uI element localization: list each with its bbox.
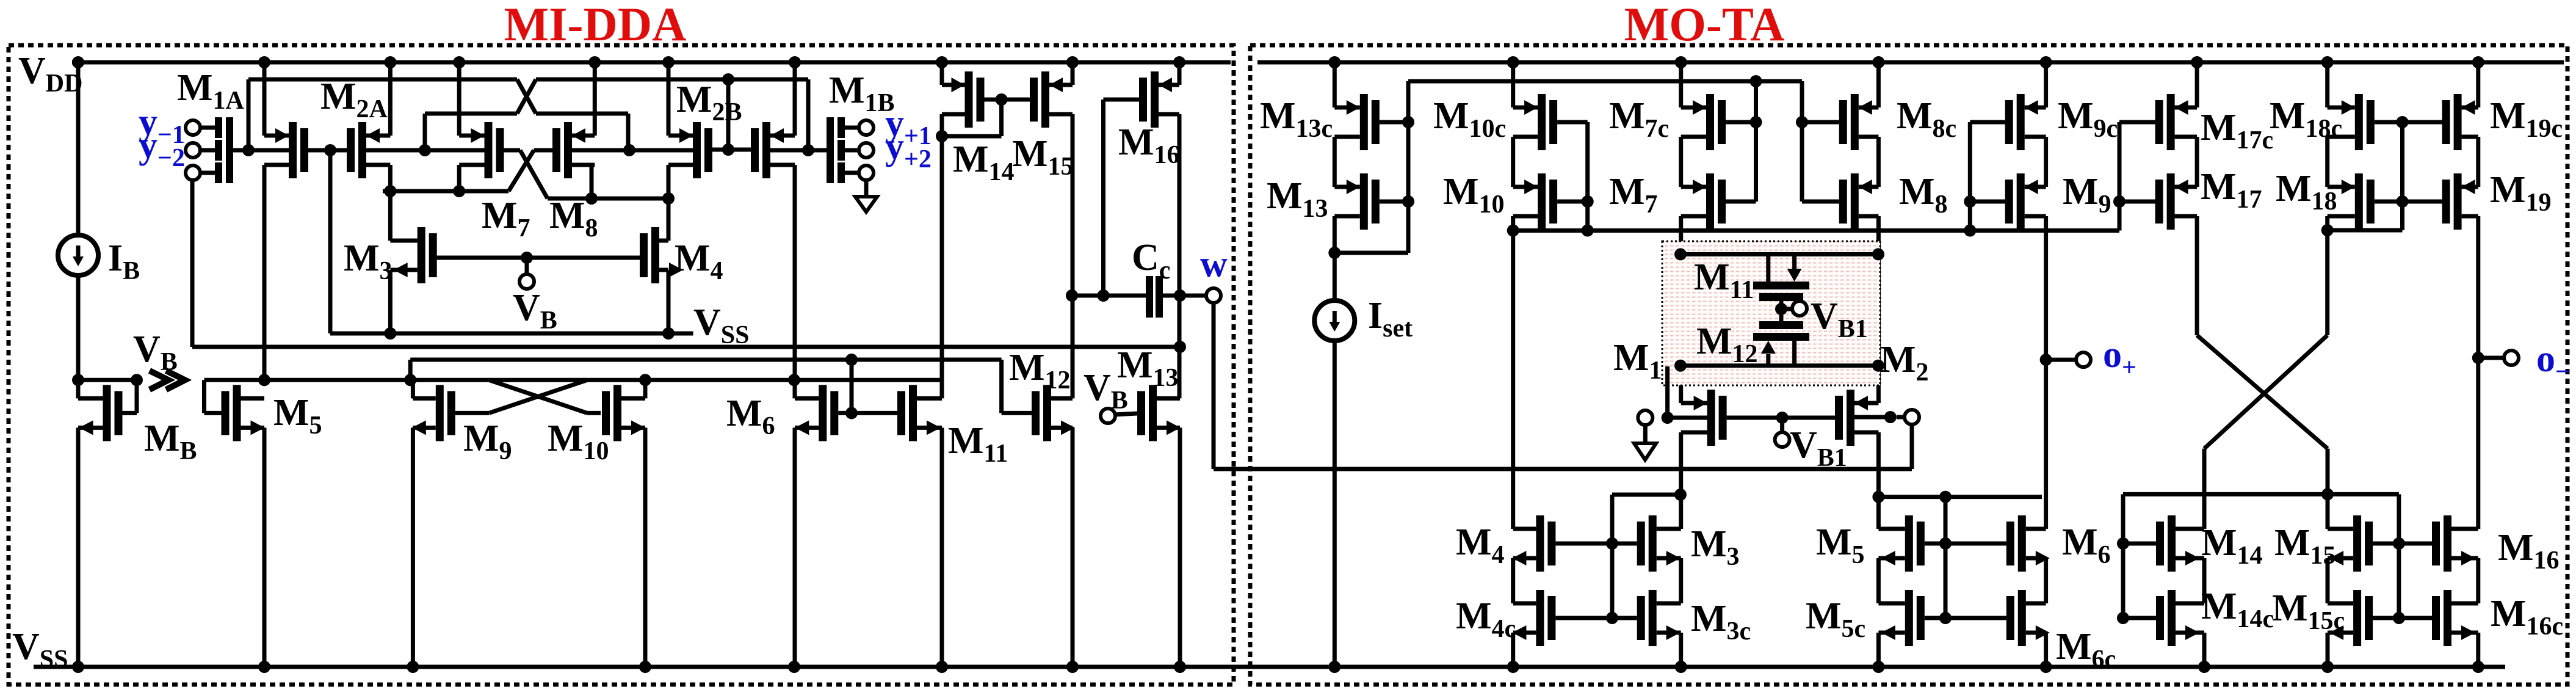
svg-text:MI-DDA: MI-DDA bbox=[504, 0, 687, 51]
svg-text:w: w bbox=[1200, 244, 1228, 285]
svg-text:MO-TA: MO-TA bbox=[1624, 0, 1785, 51]
